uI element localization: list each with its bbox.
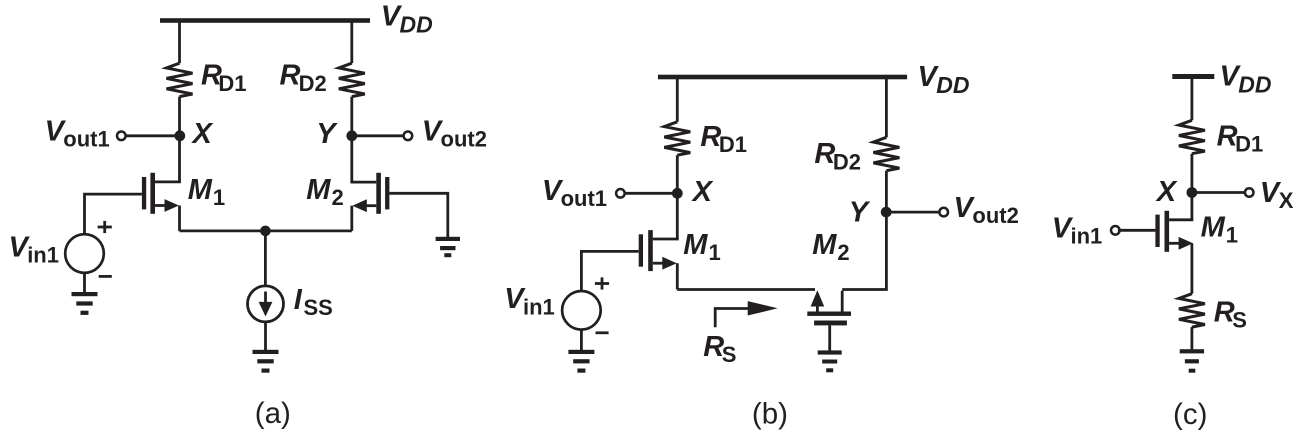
svg-text:out2: out2	[972, 203, 1018, 228]
svg-text:M: M	[188, 174, 213, 206]
svg-text:SS: SS	[304, 295, 333, 320]
wire tail to ISS (a)	[264, 231, 267, 286]
svg-text:D1: D1	[719, 132, 747, 157]
terminal circle Vout1 (b)	[616, 189, 625, 198]
wire Vout1 terminal (b)	[623, 192, 677, 195]
svg-text:M: M	[306, 174, 331, 206]
wire Vout2 terminal (b)	[886, 211, 941, 214]
wire bar to RD1 (c)	[1191, 77, 1194, 121]
wire RS to ground (c)	[1191, 327, 1194, 349]
ground (c)	[1180, 349, 1204, 373]
svg-text:in1: in1	[27, 242, 59, 267]
VDD rail (a)	[160, 18, 370, 23]
node Y (a)	[346, 130, 357, 141]
svg-text:X: X	[691, 176, 714, 208]
svg-text:D1: D1	[1235, 131, 1263, 156]
svg-text:(b): (b)	[752, 398, 788, 431]
ground M2 gate (b)	[818, 350, 842, 372]
svg-text:out1: out1	[561, 186, 607, 211]
svg-text:X: X	[191, 118, 214, 150]
svg-text:Y: Y	[316, 118, 338, 150]
svg-text:D2: D2	[299, 71, 327, 96]
svg-text:DD: DD	[400, 12, 433, 38]
transistor M2 (b)	[807, 212, 886, 325]
current source ISS (a)	[248, 286, 284, 322]
svg-text:D2: D2	[833, 149, 861, 174]
resistor RD2 (b)	[873, 137, 899, 170]
transistor M1 (b)	[639, 230, 679, 289]
resistor RD1 (a)	[167, 63, 193, 96]
plus sign (a)	[98, 226, 112, 229]
source wire M1 to M2 (b)	[677, 288, 815, 291]
wire rail to RD2 (b)	[885, 77, 888, 137]
wire Vout2 terminal (a)	[352, 134, 405, 137]
svg-text:2: 2	[332, 185, 344, 210]
wire ISS to ground (a)	[264, 322, 267, 350]
voltage source Vin1 (a)	[65, 234, 104, 273]
svg-text:DD: DD	[936, 72, 969, 98]
svg-text:D1: D1	[218, 71, 246, 96]
svg-text:M: M	[1201, 211, 1226, 243]
tail wire (a)	[180, 229, 352, 232]
svg-text:X: X	[1279, 188, 1294, 213]
gate wire M1 (c)	[1118, 229, 1156, 232]
wire Vin1 to ground (a)	[83, 273, 86, 292]
minus sign (b)	[596, 331, 609, 334]
svg-text:I: I	[294, 284, 303, 316]
wire RD1 to M1 drain (b)	[676, 155, 679, 239]
svg-text:2: 2	[837, 240, 849, 265]
svg-text:S: S	[1232, 308, 1247, 333]
svg-text:R: R	[280, 60, 301, 92]
svg-text:S: S	[722, 342, 737, 367]
svg-text:X: X	[1155, 176, 1178, 208]
transistor M1 (a)	[142, 173, 181, 231]
gate wire M1 (a)	[85, 194, 142, 234]
terminal circle VX (c)	[1245, 188, 1254, 197]
wire rail to RD1 (b)	[676, 77, 679, 122]
VDD rail (b)	[658, 75, 907, 80]
gate wire M2 to ground (b)	[828, 325, 831, 350]
svg-text:1: 1	[213, 185, 225, 210]
svg-text:in1: in1	[523, 294, 555, 319]
node tail junction (a)	[260, 226, 271, 237]
wire rail to RD1 (a)	[178, 21, 181, 64]
svg-text:out1: out1	[63, 127, 109, 152]
terminal circle Vout2 (b)	[939, 208, 948, 217]
wire RD1 to M1 drain (c)	[1191, 154, 1194, 220]
transistor M1 (c)	[1155, 211, 1193, 294]
node X (c)	[1187, 187, 1198, 198]
ground M2 gate (a)	[436, 237, 460, 257]
wire RD2 to M2 drain (a)	[350, 97, 353, 183]
terminal circle Vout2 (a)	[404, 132, 413, 141]
ground ISS (a)	[253, 350, 279, 373]
RS current arrow (b)	[715, 301, 778, 327]
VDD bar (c)	[1172, 74, 1214, 79]
wire Vout1 terminal (a)	[124, 134, 180, 137]
svg-text:M: M	[812, 229, 837, 261]
wire VX terminal (c)	[1192, 191, 1246, 194]
svg-text:out2: out2	[441, 127, 487, 152]
svg-text:1: 1	[1226, 222, 1238, 247]
resistor RD2 (a)	[339, 63, 365, 96]
terminal circle Vout1 (a)	[117, 132, 126, 141]
resistor RD1 (c)	[1179, 120, 1205, 153]
resistor RS (c)	[1179, 294, 1205, 327]
wire RD1 to M1 drain (a)	[178, 97, 181, 182]
svg-text:(a): (a)	[255, 397, 291, 430]
node Y (b)	[881, 207, 892, 218]
svg-text:M: M	[683, 229, 708, 261]
svg-text:1: 1	[709, 240, 721, 265]
gate wire M2 to ground (a)	[389, 193, 447, 237]
plus sign (b)	[595, 282, 609, 285]
node X (a)	[174, 130, 185, 141]
wire Vin1 to ground (b)	[580, 330, 583, 350]
wire RD2 to node Y (b)	[885, 171, 888, 215]
transistor M2 (a)	[350, 173, 389, 231]
svg-text:Y: Y	[849, 197, 871, 229]
resistor RD1 (b)	[664, 122, 690, 155]
svg-text:DD: DD	[1238, 72, 1271, 98]
voltage source Vin1 (b)	[562, 291, 601, 330]
svg-text:in1: in1	[1071, 223, 1103, 248]
wire rail to RD2 (a)	[350, 21, 353, 64]
svg-text:(c): (c)	[1173, 398, 1207, 431]
ground Vin1 (a)	[72, 292, 98, 315]
minus sign (a)	[99, 275, 112, 278]
node X (b)	[672, 188, 683, 199]
gate wire M1 (b)	[581, 251, 638, 291]
ground Vin1 (b)	[568, 350, 594, 373]
terminal circle Vin1 (c)	[1111, 226, 1120, 235]
